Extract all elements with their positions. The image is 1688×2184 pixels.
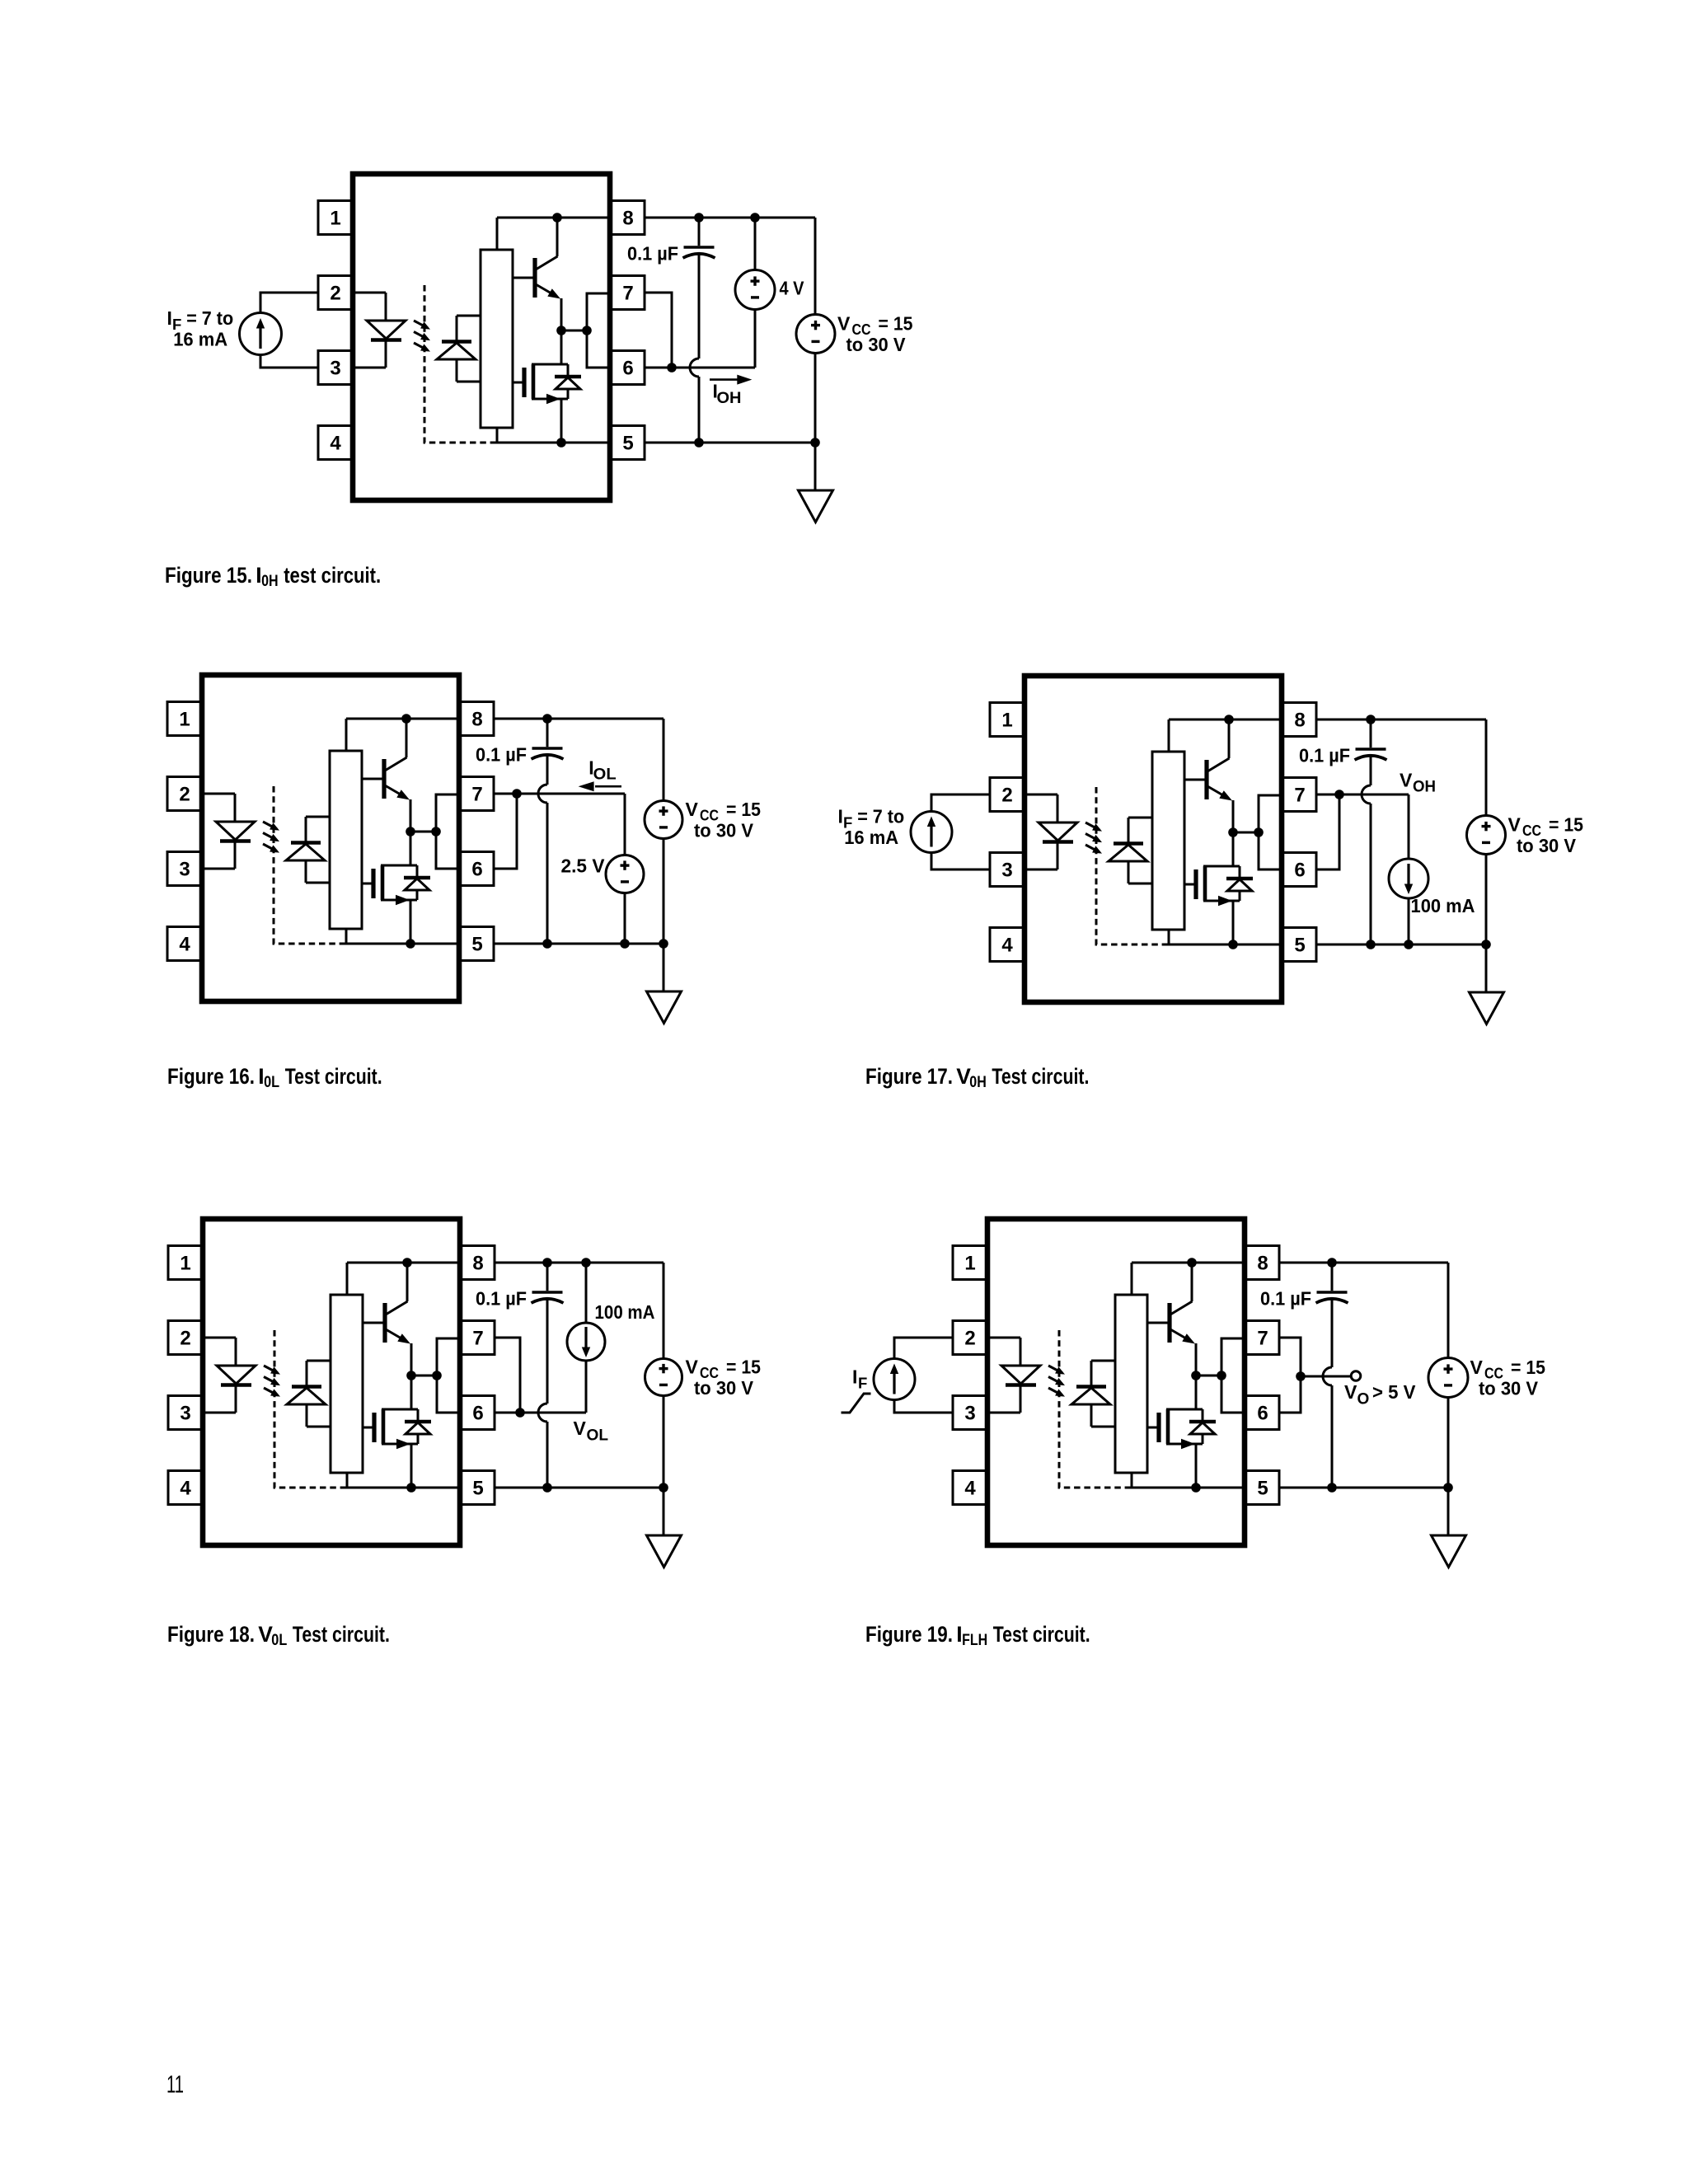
svg-text:3: 3 <box>330 358 340 380</box>
U19 junction on ground rail <box>1191 1483 1201 1493</box>
Fig17 label 100 mA <box>1411 895 1475 916</box>
Fig17 wire pin5 ground rail <box>1316 944 1486 946</box>
U19 output junction A <box>1191 1371 1201 1380</box>
Fig19 wire output to terminal <box>1301 1376 1351 1378</box>
Fig17 wire pin6 up to pin7 wire <box>1316 794 1339 869</box>
Fig17 wire IF to pin3 <box>931 853 990 870</box>
U18 NPN transistor Q1 <box>363 1263 411 1376</box>
svg-text:test circuit.: test circuit. <box>284 563 381 588</box>
svg-text:7: 7 <box>471 784 482 806</box>
svg-text:= 7 to: = 7 to <box>857 806 904 827</box>
Fig19 IF step waveform symbol <box>842 1394 871 1413</box>
Fig15 label IOH <box>713 381 742 407</box>
U19 pin 4 <box>953 1471 987 1505</box>
Fig19 wire IF to pin3 <box>894 1400 953 1413</box>
svg-text:Figure 16.: Figure 16. <box>167 1064 255 1089</box>
U19 MOSFET body diode D3 <box>1189 1409 1216 1444</box>
svg-text:4: 4 <box>179 934 190 956</box>
U16 pin 1 <box>167 702 202 736</box>
Fig19 label Vcc = 15 to 30 V <box>1470 1357 1546 1399</box>
U19 pin 5 <box>1245 1471 1279 1505</box>
Fig15 C1: wire from Vcc rail <box>698 218 701 246</box>
svg-text:2: 2 <box>964 1328 975 1350</box>
Fig19 wire to ground <box>1447 1488 1450 1535</box>
svg-text:4 V: 4 V <box>780 278 805 299</box>
Fig18 wire pin5 ground rail <box>495 1487 663 1489</box>
U17 wire pin2 to LED anode <box>1025 794 1057 823</box>
svg-text:0.1 µF: 0.1 µF <box>627 243 678 265</box>
Fig19 wire pin7 down to output node <box>1279 1338 1301 1376</box>
U19 dashed shield boundary <box>1059 1330 1129 1488</box>
svg-text:I: I <box>838 806 843 827</box>
Fig15 input current source IF <box>240 313 282 355</box>
svg-text:> 5 V: > 5 V <box>1372 1381 1416 1403</box>
U19 pin 2 <box>953 1321 987 1355</box>
Fig19 Vcc supply source <box>1428 1263 1468 1488</box>
Fig16 label Vcc = 15 to 30 V <box>686 799 762 841</box>
U16 pin 4 <box>167 927 202 961</box>
U15 amplifier block <box>481 250 513 428</box>
svg-text:= 15: = 15 <box>1511 1357 1545 1378</box>
Fig18 label Vcc = 15 to 30 V <box>686 1357 762 1399</box>
Fig15 wire pin8 to Vcc rail <box>645 217 815 219</box>
Fig19 output terminal <box>1351 1371 1361 1381</box>
U15 wire output to pins 7 and 6 <box>587 293 610 368</box>
U19 wire LED cathode to pin3 <box>987 1385 1020 1413</box>
svg-text:2: 2 <box>1001 785 1012 807</box>
U18 MOSFET Q2 <box>363 1409 418 1449</box>
svg-text:to 30 V: to 30 V <box>694 1377 754 1399</box>
Fig15 wire IF to pin2 <box>260 293 318 313</box>
U17 wire source to ground rail <box>1232 901 1235 944</box>
svg-text:4: 4 <box>330 433 341 455</box>
U15 wire LED cathode to pin3 <box>353 340 386 368</box>
U17 output junction B <box>1254 827 1264 837</box>
Fig16 junction pin7/pin6 <box>512 789 522 799</box>
U16 wire ground rail <box>344 929 459 944</box>
Fig15 ground symbol <box>799 490 833 523</box>
Fig16 label 2.5 V <box>561 855 606 877</box>
svg-text:Figure 19.: Figure 19. <box>865 1622 953 1647</box>
U19 pin 7 <box>1245 1321 1279 1355</box>
U16 wire drain <box>410 832 412 865</box>
U15 light emission arrows <box>414 321 430 352</box>
U18 photodiode D2 <box>287 1361 331 1427</box>
Fig15 junction cap bottom <box>694 438 704 448</box>
U19 output junction B <box>1217 1371 1226 1380</box>
svg-text:5: 5 <box>472 1478 483 1500</box>
svg-text:Test circuit.: Test circuit. <box>285 1064 382 1089</box>
svg-text:0.1 µF: 0.1 µF <box>476 1288 527 1310</box>
U15 wire Vcc rail <box>497 218 610 250</box>
svg-text:4: 4 <box>964 1478 976 1500</box>
svg-text:V: V <box>1344 1381 1357 1403</box>
U16 dashed shield boundary <box>274 786 344 944</box>
Fig15 label IF = 7 to 16 mA <box>167 307 234 349</box>
svg-text:8: 8 <box>472 1253 483 1275</box>
U16 pin 3 <box>167 852 202 886</box>
U15 pin 7 <box>610 276 645 310</box>
Fig15 label Vcc = 15 to 30 V <box>837 313 913 355</box>
capacitor 0.1 uF (Fig19 C1) <box>1316 1292 1348 1303</box>
U19 wire source to ground rail <box>1195 1444 1198 1488</box>
Fig16 junction 2.5V bottom <box>620 939 630 949</box>
Fig18 junction 100mA top <box>581 1258 591 1268</box>
svg-text:3: 3 <box>180 1403 190 1425</box>
U17 pin 6 <box>1282 853 1316 887</box>
svg-text:V: V <box>686 1357 699 1378</box>
svg-text:I: I <box>852 1366 857 1388</box>
U16 output junction B <box>431 827 441 837</box>
U16 wire output to pins 7 and 6 <box>436 794 459 869</box>
U16 output junction A <box>406 827 415 837</box>
U18 pin 3 <box>168 1396 203 1430</box>
Fig17 input current source IF <box>911 812 952 853</box>
U16 wire source to ground rail <box>410 900 412 944</box>
U17 output junction A <box>1228 827 1238 837</box>
U16 input LED D1 <box>216 822 255 841</box>
U18 pin 5 <box>460 1471 495 1505</box>
Fig16 C1: wire to ground rail (hops over output wire) <box>538 754 547 944</box>
U19 amplifier block <box>1115 1295 1147 1473</box>
Fig17 junction cap bottom <box>1366 940 1376 949</box>
Fig17 junction cap top <box>1366 715 1376 724</box>
Fig16 C1: wire from Vcc rail <box>546 719 549 747</box>
U15 junction on Vcc rail <box>552 213 562 223</box>
svg-text:100 mA: 100 mA <box>595 1301 655 1323</box>
capacitor 0.1 uF (Fig16 C1) <box>532 748 564 759</box>
U18 pin 4 <box>168 1471 203 1505</box>
svg-text:7: 7 <box>1294 785 1305 807</box>
svg-text:6: 6 <box>1294 860 1305 882</box>
U17 output node wire <box>1233 832 1259 834</box>
Fig16 Vcc supply source <box>645 719 682 944</box>
Fig18 C1: wire from Vcc rail <box>546 1263 549 1291</box>
U17 pin 4 <box>990 928 1025 962</box>
U16 wire LED cathode to pin3 <box>202 841 235 869</box>
U16 pin 8 <box>459 702 494 736</box>
U15 pin 5 <box>610 426 645 460</box>
svg-text:= 15: = 15 <box>1549 814 1583 836</box>
U17 pin 5 <box>1282 928 1316 962</box>
U17 photodiode D2 <box>1109 818 1152 883</box>
U19 wire ground rail <box>1129 1473 1245 1488</box>
Fig19 junction gnd rail / Vcc <box>1443 1483 1453 1493</box>
U15 pin 4 <box>318 426 353 460</box>
U15 pin 1 <box>318 201 353 235</box>
optocoupler U15 package outline <box>353 174 610 500</box>
Fig16 junction cap bottom <box>542 939 552 949</box>
U19 pin 8 <box>1245 1246 1279 1280</box>
Fig15 junction gnd rail / Vcc <box>810 438 820 448</box>
Fig18 label VOL <box>574 1418 609 1445</box>
Fig17 C1: wire from Vcc rail <box>1370 719 1372 748</box>
Fig15 wire pin5 ground rail <box>645 442 815 444</box>
U15 pin 3 <box>318 351 353 385</box>
U19 wire drain <box>1195 1376 1198 1409</box>
label 0.1 uF (Fig17 C1) <box>1299 745 1350 766</box>
U18 output junction A <box>406 1371 416 1380</box>
U15 input LED D1 <box>367 321 406 340</box>
U18 junction on Vcc rail <box>402 1258 412 1268</box>
U18 pin 2 <box>168 1321 203 1355</box>
Fig15 label 4 V <box>780 278 805 299</box>
U18 wire Vcc rail <box>347 1263 460 1295</box>
U18 pin 7 <box>460 1321 495 1355</box>
optocoupler U18 package outline <box>203 1219 460 1545</box>
Fig16 wire pin8 to Vcc rail <box>494 718 663 720</box>
U19 wire pin2 to LED anode <box>987 1338 1020 1366</box>
capacitor 0.1 uF (Fig17 C1) <box>1355 749 1387 760</box>
svg-text:3: 3 <box>179 859 190 881</box>
U16 pin 5 <box>459 927 494 961</box>
U19 MOSFET Q2 <box>1147 1409 1203 1449</box>
Fig16 label IOL <box>588 757 617 784</box>
svg-text:Test circuit.: Test circuit. <box>993 1622 1090 1647</box>
Fig17 wire IF to pin2 <box>931 794 990 812</box>
U19 pin 1 <box>953 1246 987 1280</box>
Fig17 Vcc supply source <box>1467 719 1506 944</box>
Fig16 ground symbol <box>647 991 682 1024</box>
Fig19 C1: wire to ground rail (hops over output wire) <box>1323 1298 1332 1488</box>
Fig16 wire pin7 to 2.5V source <box>494 794 625 855</box>
svg-text:0.1 µF: 0.1 µF <box>476 744 527 766</box>
svg-text:6: 6 <box>622 358 633 380</box>
svg-text:100 mA: 100 mA <box>1411 895 1475 916</box>
U17 pin 1 <box>990 703 1025 737</box>
U18 output junction B <box>432 1371 442 1380</box>
Fig17 label IF = 7 to 16 mA <box>838 806 905 848</box>
U16 amplifier block <box>330 751 362 929</box>
U15 output junction A <box>556 326 566 335</box>
svg-text:to 30 V: to 30 V <box>694 820 754 841</box>
U15 dashed shield boundary <box>424 285 495 443</box>
Fig19 ground symbol <box>1432 1535 1466 1568</box>
svg-text:Test circuit.: Test circuit. <box>992 1064 1089 1089</box>
svg-text:5: 5 <box>622 433 633 455</box>
U17 MOSFET Q2 <box>1184 866 1240 906</box>
capacitor 0.1 uF (Fig15 C1) <box>683 247 715 258</box>
Fig19 junction cap bottom <box>1327 1483 1337 1493</box>
Fig18 junction pin7/pin6 <box>515 1408 525 1418</box>
U18 MOSFET body diode D3 <box>405 1409 431 1444</box>
svg-text:0L: 0L <box>271 1632 287 1649</box>
U17 pin 2 <box>990 778 1025 812</box>
U17 MOSFET body diode D3 <box>1226 866 1253 901</box>
U16 NPN transistor Q1 <box>362 719 410 832</box>
Fig15 wire pin6 to 4V source <box>645 367 755 369</box>
svg-text:Test circuit.: Test circuit. <box>293 1622 390 1647</box>
Fig19 wire pin6 up to output node <box>1279 1376 1301 1413</box>
U19 NPN transistor Q1 <box>1147 1263 1196 1376</box>
U18 wire ground rail <box>345 1473 460 1488</box>
U17 amplifier block <box>1152 752 1184 930</box>
Fig18 wire to ground <box>663 1488 665 1535</box>
svg-text:V: V <box>574 1418 587 1439</box>
Fig19 caption <box>865 1622 1090 1649</box>
Fig18 Vcc supply source <box>645 1263 682 1488</box>
U16 pin 6 <box>459 852 494 886</box>
svg-text:F: F <box>858 1375 867 1392</box>
U18 wire LED cathode to pin3 <box>203 1385 236 1413</box>
svg-text:0H: 0H <box>261 573 279 590</box>
svg-text:O: O <box>1357 1391 1370 1408</box>
U15 NPN transistor Q1 <box>513 218 561 330</box>
svg-text:8: 8 <box>471 709 482 731</box>
svg-text:6: 6 <box>472 1403 483 1425</box>
svg-text:I: I <box>167 307 172 329</box>
U19 input LED D1 <box>1001 1366 1040 1385</box>
svg-text:1: 1 <box>180 1253 190 1275</box>
U19 junction on Vcc rail <box>1187 1258 1197 1268</box>
Fig18 junction cap top <box>542 1258 552 1268</box>
svg-text:3: 3 <box>964 1403 975 1425</box>
svg-text:V: V <box>1400 770 1413 791</box>
U17 wire LED cathode to pin3 <box>1025 842 1057 869</box>
U19 photodiode D2 <box>1071 1361 1115 1427</box>
U17 dashed shield boundary <box>1096 787 1166 944</box>
Fig17 label VOH <box>1400 770 1436 796</box>
U15 MOSFET Q2 <box>513 364 568 404</box>
Fig15 wire IF to pin3 <box>260 355 318 368</box>
Fig17 100 mA current source <box>1389 859 1428 944</box>
U19 output node wire <box>1196 1375 1221 1377</box>
U19 pin 3 <box>953 1396 987 1430</box>
svg-text:to 30 V: to 30 V <box>1479 1378 1539 1399</box>
svg-text:Figure 17.: Figure 17. <box>865 1064 953 1089</box>
svg-text:3: 3 <box>1001 860 1012 882</box>
Fig15 4V source V1 <box>735 218 775 368</box>
U17 wire output to pins 7 and 6 <box>1259 795 1282 869</box>
svg-text:8: 8 <box>1294 710 1305 732</box>
Fig19 wire pin8 to Vcc rail <box>1279 1262 1448 1264</box>
U17 wire drain <box>1232 832 1235 866</box>
U17 NPN transistor Q1 <box>1184 719 1233 832</box>
Fig15 IOH current arrow <box>710 375 752 385</box>
Fig19 label VO > 5 V <box>1344 1381 1416 1408</box>
Fig17 junction pin7/pin6 <box>1334 790 1344 799</box>
U17 junction on Vcc rail <box>1224 715 1234 724</box>
U16 pin 2 <box>167 777 202 811</box>
svg-text:4: 4 <box>180 1478 191 1500</box>
Fig17 junction 100mA bottom <box>1404 940 1414 949</box>
Fig18 wire pin7 down to pin6 node <box>495 1338 520 1413</box>
svg-text:8: 8 <box>622 208 633 230</box>
U18 pin 1 <box>168 1246 203 1280</box>
optocoupler U17 package outline <box>1025 676 1282 1002</box>
Fig15 C1: wire to ground rail (hops over output wire) <box>690 253 699 443</box>
U17 input LED D1 <box>1039 823 1077 842</box>
svg-text:Figure 18.: Figure 18. <box>167 1622 255 1647</box>
svg-text:8: 8 <box>1257 1253 1268 1275</box>
U18 wire output to pins 7 and 6 <box>437 1338 460 1413</box>
label 0.1 uF (Fig18 C1) <box>476 1288 527 1310</box>
Fig15 wire pin7 down to pin6 node <box>645 293 672 368</box>
svg-text:0H: 0H <box>969 1074 987 1091</box>
svg-text:16 mA: 16 mA <box>173 328 227 349</box>
Fig19 input current source IF <box>874 1359 915 1400</box>
optocoupler U16 package outline <box>202 675 459 1001</box>
U15 output junction B <box>582 326 592 335</box>
Fig17 caption <box>865 1064 1089 1091</box>
Fig19 label IF <box>852 1366 867 1392</box>
U16 MOSFET body diode D3 <box>404 865 430 900</box>
U19 light emission arrows <box>1048 1366 1065 1397</box>
svg-text:6: 6 <box>1257 1403 1268 1425</box>
label 0.1 uF (Fig16 C1) <box>476 744 527 766</box>
Fig19 C1: wire from Vcc rail <box>1331 1263 1334 1291</box>
label 0.1 uF (Fig19 C1) <box>1260 1288 1311 1310</box>
U18 dashed shield boundary <box>274 1330 345 1488</box>
Fig17 ground symbol <box>1470 992 1504 1024</box>
Fig18 wire pin6 to 100mA source <box>495 1412 586 1414</box>
svg-text:5: 5 <box>471 934 482 956</box>
Fig19 output junction <box>1296 1371 1306 1381</box>
U17 pin 7 <box>1282 778 1316 812</box>
U16 MOSFET Q2 <box>362 865 417 905</box>
label 0.1 uF (Fig15 C1) <box>627 243 678 265</box>
U17 pin 8 <box>1282 703 1316 737</box>
svg-text:V: V <box>686 799 699 820</box>
Fig15 junction 4V top <box>750 213 760 223</box>
Fig16 junction gnd rail / Vcc <box>659 939 668 949</box>
U18 wire pin2 to LED anode <box>203 1338 236 1366</box>
Fig16 junction cap top <box>542 714 552 724</box>
U18 pin 6 <box>460 1396 495 1430</box>
svg-text:OL: OL <box>587 1427 609 1445</box>
U15 wire pin2 to LED anode <box>353 293 386 321</box>
U19 wire output to pins 7 and 6 <box>1221 1338 1245 1413</box>
capacitor 0.1 uF (Fig18 C1) <box>532 1292 564 1303</box>
U17 wire ground rail <box>1166 930 1282 944</box>
U18 amplifier block <box>331 1295 363 1473</box>
U17 junction on ground rail <box>1228 940 1238 949</box>
Fig19 junction cap top <box>1327 1258 1337 1268</box>
Fig18 C1: wire to ground rail (hops over output wire) <box>538 1298 547 1488</box>
U16 pin 7 <box>459 777 494 811</box>
Fig17 label Vcc = 15 to 30 V <box>1508 814 1584 856</box>
svg-text:1: 1 <box>964 1253 975 1275</box>
svg-text:OL: OL <box>593 766 617 784</box>
svg-text:4: 4 <box>1001 935 1013 957</box>
svg-text:V: V <box>1470 1357 1484 1378</box>
Fig18 ground symbol <box>647 1535 682 1568</box>
Fig15 Vcc supply source <box>796 218 835 443</box>
Fig18 label 100 mA <box>595 1301 655 1323</box>
svg-text:16 mA: 16 mA <box>844 827 898 848</box>
U16 junction on ground rail <box>406 939 415 949</box>
Fig19 wire pin5 ground rail <box>1279 1487 1448 1489</box>
U15 photodiode D2 <box>437 316 481 382</box>
svg-text:0.1 µF: 0.1 µF <box>1299 745 1350 766</box>
U16 junction on Vcc rail <box>401 714 411 724</box>
svg-text:= 15: = 15 <box>726 799 761 820</box>
svg-text:to 30 V: to 30 V <box>846 334 907 355</box>
page number 11 <box>166 2071 184 2098</box>
svg-text:FLH: FLH <box>962 1632 987 1649</box>
U19 pin 6 <box>1245 1396 1279 1430</box>
Fig15 wire to ground <box>814 443 817 490</box>
Fig17 C1: wire to ground rail (hops over output wire) <box>1362 755 1371 944</box>
Fig16 wire pin6 up to pin7 wire <box>494 794 517 869</box>
Fig16 wire pin5 ground rail <box>494 943 663 945</box>
svg-text:OH: OH <box>1413 779 1436 796</box>
Fig16 wire to ground <box>663 944 665 991</box>
U16 output node wire <box>410 831 436 833</box>
Fig18 100 mA current source <box>567 1263 605 1413</box>
U15 wire source to ground rail <box>560 399 563 443</box>
Fig17 junction gnd rail / Vcc <box>1481 940 1491 949</box>
